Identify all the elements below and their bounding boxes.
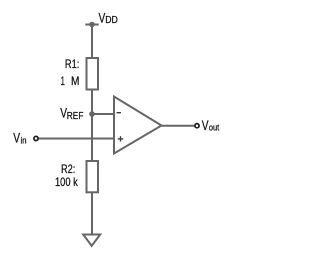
svg-text:out: out (209, 123, 220, 133)
svg-text:V: V (202, 118, 209, 133)
svg-text:100 k: 100 k (55, 175, 79, 189)
svg-text:V: V (13, 130, 20, 145)
svg-text:in: in (21, 135, 27, 145)
svg-text:M: M (71, 74, 79, 88)
svg-text:R2:: R2: (61, 162, 75, 176)
svg-text:DD: DD (105, 14, 118, 26)
svg-text:R1:: R1: (65, 57, 80, 71)
svg-text:1: 1 (61, 74, 65, 88)
svg-text:REF: REF (67, 110, 84, 122)
